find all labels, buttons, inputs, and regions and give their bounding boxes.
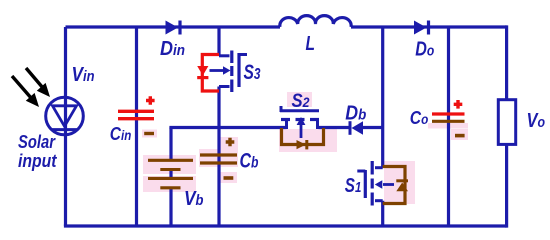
body diode of S3 (red) — [197, 55, 219, 92]
wire S3-Cb branch — [217, 27, 220, 226]
svg-text:Vo: Vo — [527, 110, 546, 132]
svg-text:input: input — [18, 151, 57, 171]
transistor S3 (MOSFET, gate right, body diode left) — [210, 51, 248, 93]
wire bottom rail — [64, 224, 507, 227]
transistor S2 (MOSFET horizontal, gate top, body diode below) — [280, 106, 319, 138]
pink highlight Cb — [220, 137, 238, 149]
pink highlight S2 label — [287, 92, 312, 107]
solar arrow 1 — [12, 76, 39, 107]
solar arrow 2 — [26, 68, 50, 97]
body diode of S2 (brown) — [282, 128, 324, 149]
transistor S1 (MOSFET, gate left, body diode right) — [357, 161, 394, 206]
diode Do — [414, 21, 429, 35]
wire battery branch — [169, 128, 172, 227]
wire S1 branch — [381, 27, 384, 226]
capacitor Cin — [118, 96, 155, 133]
svg-text:Vb: Vb — [184, 188, 204, 210]
battery Vb — [148, 160, 193, 188]
wire Vo branch — [505, 25, 508, 227]
diode Db — [350, 121, 363, 135]
pink highlight battery Vb — [143, 155, 196, 174]
wire Co branch — [447, 27, 450, 226]
pink highlight S2 body diode — [279, 129, 337, 152]
capacitor Cb — [200, 138, 237, 178]
pink highlight Cin minus — [142, 130, 157, 138]
svg-text:Do: Do — [415, 39, 434, 61]
svg-text:S2: S2 — [292, 91, 310, 112]
svg-text:Din: Din — [160, 38, 185, 60]
diode Din — [166, 21, 181, 35]
photodiode solar cell — [46, 97, 84, 135]
wire middle rail — [169, 126, 382, 129]
wire top rail — [66, 25, 507, 28]
wire left rail — [64, 27, 67, 226]
svg-text:S1: S1 — [345, 175, 362, 197]
capacitor Co — [432, 100, 465, 136]
pink highlight S1 body diode — [384, 161, 415, 204]
resistor load Vo — [498, 100, 515, 145]
svg-text:L: L — [306, 33, 316, 55]
svg-text:Db: Db — [345, 103, 366, 125]
svg-text:Solar: Solar — [18, 132, 56, 152]
body diode of S1 (brown) — [383, 167, 408, 204]
pink highlight Co minus — [428, 123, 468, 129]
svg-text:Vin: Vin — [72, 64, 95, 86]
wire Cin branch — [135, 27, 138, 226]
inductor L — [280, 16, 351, 27]
